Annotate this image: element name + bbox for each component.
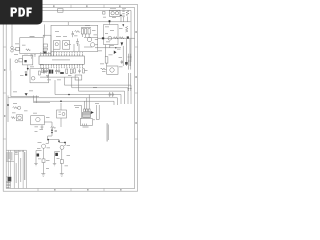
junction dot J bbox=[60, 100, 62, 102]
zone number top bbox=[53, 5, 55, 7]
filter cap stack 1 bbox=[43, 44, 47, 47]
wire shield inner verticals bbox=[74, 44, 79, 52]
zone tick bottom 2 bbox=[70, 188, 72, 191]
wire mid right 2 bbox=[95, 47, 121, 49]
capacitor C692 bbox=[34, 55, 36, 56]
zone tick bottom 3 bbox=[103, 188, 105, 191]
wire second bus bbox=[41, 21, 131, 23]
junction dot D bbox=[51, 132, 53, 134]
capacitor C651 bbox=[55, 131, 57, 132]
title text rotated col5 bbox=[19, 158, 22, 182]
zone tick left 1 bbox=[3, 46, 6, 48]
resistor R625 bbox=[83, 69, 85, 73]
zone number top 2 bbox=[86, 5, 88, 7]
transformer T601 core bbox=[83, 112, 91, 117]
small box K2 bbox=[63, 41, 70, 50]
wire below IC bus bbox=[40, 76, 78, 78]
capacitor C628 bbox=[58, 69, 60, 74]
fuse F601 bbox=[16, 47, 20, 50]
diode D611 zigzag bbox=[75, 31, 81, 33]
capacitor C611 bbox=[76, 39, 79, 47]
capacitor C601 bbox=[121, 60, 124, 64]
resistor R624 bbox=[74, 69, 76, 73]
resistor R622 bbox=[70, 69, 72, 74]
capacitor C624 dark bbox=[49, 70, 51, 74]
title block col line 5 bbox=[22, 150, 24, 188]
wire Q652 base branch bbox=[55, 152, 60, 164]
ground G2 bbox=[41, 125, 44, 129]
title block text smudge 2 bbox=[9, 152, 10, 159]
junction dot I bbox=[68, 94, 70, 96]
standby box bbox=[30, 69, 49, 83]
title block text smudge 3 bbox=[11, 152, 13, 161]
ground G4 bbox=[60, 174, 64, 177]
capacitor C602 ticks bbox=[128, 57, 132, 61]
zone letter right 2 bbox=[135, 76, 137, 78]
diode D651 dark bbox=[37, 154, 40, 157]
resistor R621 bbox=[66, 69, 68, 74]
capacitor C631 bbox=[109, 92, 111, 97]
resistor R612 bbox=[85, 29, 87, 34]
zone number top 3 bbox=[119, 5, 121, 7]
resistor R602 zigzag bbox=[119, 37, 124, 39]
resistor R601 zigzag bbox=[113, 37, 118, 39]
wire resistor tops bbox=[81, 28, 91, 37]
junction dot G bbox=[58, 140, 60, 142]
doc number rotated text bbox=[106, 123, 109, 141]
zone letter left bbox=[4, 69, 5, 71]
title block text smudge 1 bbox=[7, 152, 8, 161]
connector J601 plug circles bbox=[11, 46, 14, 49]
dark cap blob bbox=[25, 74, 27, 76]
transistor Q612 bbox=[90, 43, 94, 47]
PDF badge text vector bbox=[11, 8, 32, 17]
transistor Q643 circle bbox=[36, 117, 40, 121]
transformer T601 inner marks bbox=[82, 124, 86, 126]
wire right cap rail lower bbox=[129, 73, 131, 91]
capacitor C691 bbox=[31, 55, 33, 59]
doc number rotated text line2 bbox=[107, 125, 110, 141]
diode D606 dark in PC601 bbox=[102, 37, 104, 39]
wire right rail B bbox=[126, 39, 128, 66]
transistor Q652 bbox=[60, 145, 64, 149]
title block col line 4 bbox=[18, 150, 20, 188]
capacitor C612 bbox=[72, 31, 75, 37]
regulator inner mark 1 bbox=[59, 112, 62, 115]
component label specks bbox=[12, 8, 126, 169]
IC601 pin numbers top bbox=[40, 51, 83, 54]
resistor R656 zigzag bbox=[51, 127, 56, 129]
standby cap bbox=[44, 72, 46, 73]
small box K1 bbox=[54, 41, 61, 50]
wire stub right of badge bbox=[44, 24, 46, 37]
diode D601 dark bbox=[122, 24, 124, 26]
wire right cap rail bbox=[129, 54, 131, 70]
diode D652 dark bbox=[55, 153, 58, 156]
transistor Q642 circle bbox=[18, 116, 22, 120]
wire hbus 2 bbox=[72, 77, 128, 104]
standby transistor circle bbox=[31, 77, 35, 81]
title block row line 2 bbox=[6, 176, 11, 178]
title block frame bbox=[6, 150, 26, 188]
IC601 top pins bbox=[41, 54, 83, 56]
zone tick left 3 bbox=[3, 138, 6, 140]
transistor Q602 circle bbox=[110, 68, 114, 72]
box Q643 bbox=[31, 116, 45, 125]
capacitor C622 bbox=[55, 69, 58, 75]
resistor R691 zigzag bbox=[26, 49, 31, 51]
resistor R604 zigzag bbox=[101, 68, 107, 70]
transistor Q642 box bbox=[17, 115, 23, 121]
ground G1 bbox=[46, 76, 49, 78]
zone tick top 2 bbox=[70, 5, 72, 8]
regulator box IC651 bbox=[57, 110, 67, 118]
title block logo dark box bbox=[8, 177, 12, 181]
filter dark stripe bbox=[43, 51, 47, 53]
AC input rotated text bbox=[9, 59, 12, 71]
junction dot F bbox=[64, 142, 66, 144]
transistor Q641 bbox=[18, 106, 21, 109]
zone tick right 3 bbox=[135, 138, 138, 140]
wire top bus bbox=[43, 11, 132, 61]
wire T601 secondary right bbox=[97, 105, 100, 119]
zone letter left 2 bbox=[4, 115, 5, 117]
posistor TH601 zigzag bbox=[126, 10, 129, 16]
wire left lower vertical bbox=[7, 95, 9, 122]
IC601 body bbox=[39, 56, 84, 64]
photocoupler box PC601 bbox=[104, 25, 119, 45]
label T601 side bbox=[93, 118, 95, 121]
wire T601 primary drop 2 bbox=[86, 98, 88, 109]
junction dot E bbox=[47, 139, 49, 141]
junction dot C bbox=[51, 129, 53, 131]
wire Q651 top bbox=[46, 140, 49, 143]
transistor box Q602 bbox=[107, 66, 118, 74]
wire hbus 5 bbox=[8, 98, 118, 105]
wire R603 to Q602 bbox=[106, 63, 108, 66]
resistor R653 bbox=[42, 159, 45, 163]
wire down to output circuits bbox=[48, 133, 52, 140]
ground G3 bbox=[41, 174, 45, 177]
wire from plug bbox=[13, 48, 16, 50]
wire hbus 6 bbox=[34, 101, 114, 105]
transistor Q651 bbox=[42, 144, 46, 148]
wire T601 primary drop 3 bbox=[88, 95, 90, 110]
wire hbus 1 bbox=[64, 77, 131, 104]
wire left vertical main bbox=[10, 71, 12, 97]
wire PC601 down legs bbox=[106, 45, 110, 57]
wire right rail C bbox=[129, 39, 131, 66]
sheet inner border bbox=[6, 8, 135, 189]
capacitor C641 bbox=[25, 71, 28, 75]
wire horiz mid right bbox=[98, 37, 135, 39]
wire left bottom h bbox=[11, 96, 39, 98]
standby resistor bbox=[39, 71, 41, 75]
diode D604 dark bbox=[91, 111, 94, 114]
circle in box K2 bbox=[64, 43, 67, 46]
dark mark C603 bbox=[125, 62, 128, 65]
capacitor C623 box bbox=[75, 75, 82, 80]
label T601 bbox=[83, 126, 89, 129]
line filter box bbox=[43, 35, 51, 53]
wire output feed bbox=[48, 139, 66, 142]
wire arrow down bbox=[27, 65, 29, 71]
diode D641 dark bbox=[25, 93, 28, 96]
IC601 pin numbers bottom bbox=[40, 66, 83, 69]
zone tick bottom 1 bbox=[37, 188, 39, 191]
capacitor C629 bbox=[78, 69, 80, 74]
capacitor C625 dark bbox=[51, 70, 53, 74]
wire T601 primary drop 1 bbox=[83, 101, 85, 109]
junction dot B bbox=[27, 68, 29, 70]
resistor R623 bbox=[42, 69, 44, 73]
PDF badge bbox=[0, 0, 43, 25]
link box on bus bbox=[58, 9, 64, 13]
model text rotated bbox=[23, 152, 26, 180]
wire drop to shield box bbox=[67, 22, 69, 26]
resistor R642 zigzag bbox=[11, 117, 15, 119]
transformer T601 core stripes bbox=[83, 114, 91, 118]
title block text rows bottom bbox=[7, 182, 11, 188]
wire Q651 base branch bbox=[36, 151, 42, 164]
wire right verticals bbox=[121, 16, 128, 22]
IC601 label strip bbox=[52, 58, 70, 61]
zone letter right bbox=[135, 31, 137, 33]
wire hbus 4 bbox=[55, 80, 121, 104]
shield box main bbox=[51, 25, 98, 51]
title block top text row bbox=[15, 151, 24, 155]
title block col line 3 bbox=[13, 150, 15, 188]
junction dot relay bbox=[120, 15, 122, 17]
capacitor C632 bbox=[112, 92, 114, 97]
title text rotated col4 bbox=[15, 163, 18, 183]
dark mark R605 bbox=[127, 36, 129, 38]
zone tick left 2 bbox=[3, 92, 6, 94]
zone tick right 1 bbox=[135, 46, 138, 48]
wire right rail A bbox=[122, 46, 124, 66]
ground G5 bbox=[34, 164, 37, 166]
capacitor C626 dark bbox=[60, 72, 64, 74]
relay RY601 box bbox=[109, 10, 120, 16]
wire Q652 collector bbox=[61, 149, 63, 159]
wire Q652 top bbox=[64, 143, 65, 146]
wire mid connect bbox=[34, 95, 50, 102]
title block row line 1 bbox=[6, 160, 14, 162]
diode D602 dark bbox=[121, 42, 124, 46]
wire into PC601 bbox=[108, 22, 110, 25]
title block col line 1 bbox=[7, 150, 9, 188]
winding cap 3 bbox=[88, 109, 90, 112]
wire R653 down bbox=[42, 163, 44, 174]
resistor R641 zigzag bbox=[13, 107, 18, 109]
zone number bottom 2 bbox=[87, 189, 89, 191]
filter cap stack 2 bbox=[43, 48, 47, 50]
zone tick top 3 bbox=[103, 5, 105, 8]
resistor R654 bbox=[60, 160, 63, 164]
junction dot H bbox=[7, 104, 9, 106]
wire hbus 3 bbox=[79, 77, 125, 104]
resistor R611 bbox=[81, 29, 83, 34]
wire Q643 to output bbox=[44, 122, 52, 133]
thermistor zigzag bbox=[126, 27, 129, 33]
wire filter to IC bbox=[51, 49, 54, 56]
zone number bottom 3 bbox=[120, 189, 122, 191]
zone tick right 2 bbox=[135, 92, 138, 94]
ground G6 bbox=[53, 164, 56, 166]
title block col line 2 bbox=[9, 150, 11, 188]
wire AC drop from badge bbox=[11, 25, 13, 47]
winding cap 2 bbox=[86, 109, 88, 112]
relay contact circle 2 bbox=[115, 12, 118, 15]
wire Q651 collector bbox=[42, 148, 44, 159]
wire regulator top bbox=[60, 103, 62, 110]
relay contact circle 1 bbox=[111, 12, 114, 15]
zone number bottom 1 bbox=[54, 189, 56, 191]
resistor R613 bbox=[88, 29, 90, 34]
transistor Q611 bbox=[87, 37, 91, 41]
capacitor C621 bbox=[43, 69, 46, 75]
AC enclosure box bbox=[20, 38, 43, 54]
wire regulator down bbox=[60, 118, 62, 127]
title block row line 3 bbox=[6, 180, 11, 182]
fuse box F602 bbox=[19, 59, 23, 62]
regulator circle bbox=[62, 113, 65, 116]
wire R654 down bbox=[61, 163, 63, 173]
plug circle P1 bbox=[15, 60, 18, 63]
diode D605 dark on bus bbox=[109, 20, 111, 22]
degauss coil L601 bbox=[122, 10, 124, 17]
dark diamond S1 bbox=[24, 60, 26, 62]
filter box FL602 bbox=[22, 56, 32, 65]
capacitor C604 ticks bbox=[128, 88, 132, 90]
diode D603 dark bbox=[114, 51, 117, 55]
wire T601 left leg bbox=[74, 106, 82, 119]
switch S601 box bbox=[103, 12, 105, 15]
junction dot A bbox=[115, 47, 116, 48]
capacitor C627 bbox=[46, 69, 48, 74]
wire inside shield bbox=[84, 38, 98, 48]
zone letter right 3 bbox=[135, 122, 137, 124]
sheet outer border bbox=[3, 5, 137, 192]
winding cap 1 bbox=[84, 109, 86, 112]
resistor R603 vertical bbox=[105, 57, 108, 63]
transistor Q601 bbox=[108, 36, 112, 40]
zone tick top 1 bbox=[37, 5, 39, 8]
transformer T601 body box bbox=[80, 119, 92, 126]
IC601 bottom pins bbox=[41, 64, 83, 66]
circle in box K1 bbox=[55, 43, 58, 46]
